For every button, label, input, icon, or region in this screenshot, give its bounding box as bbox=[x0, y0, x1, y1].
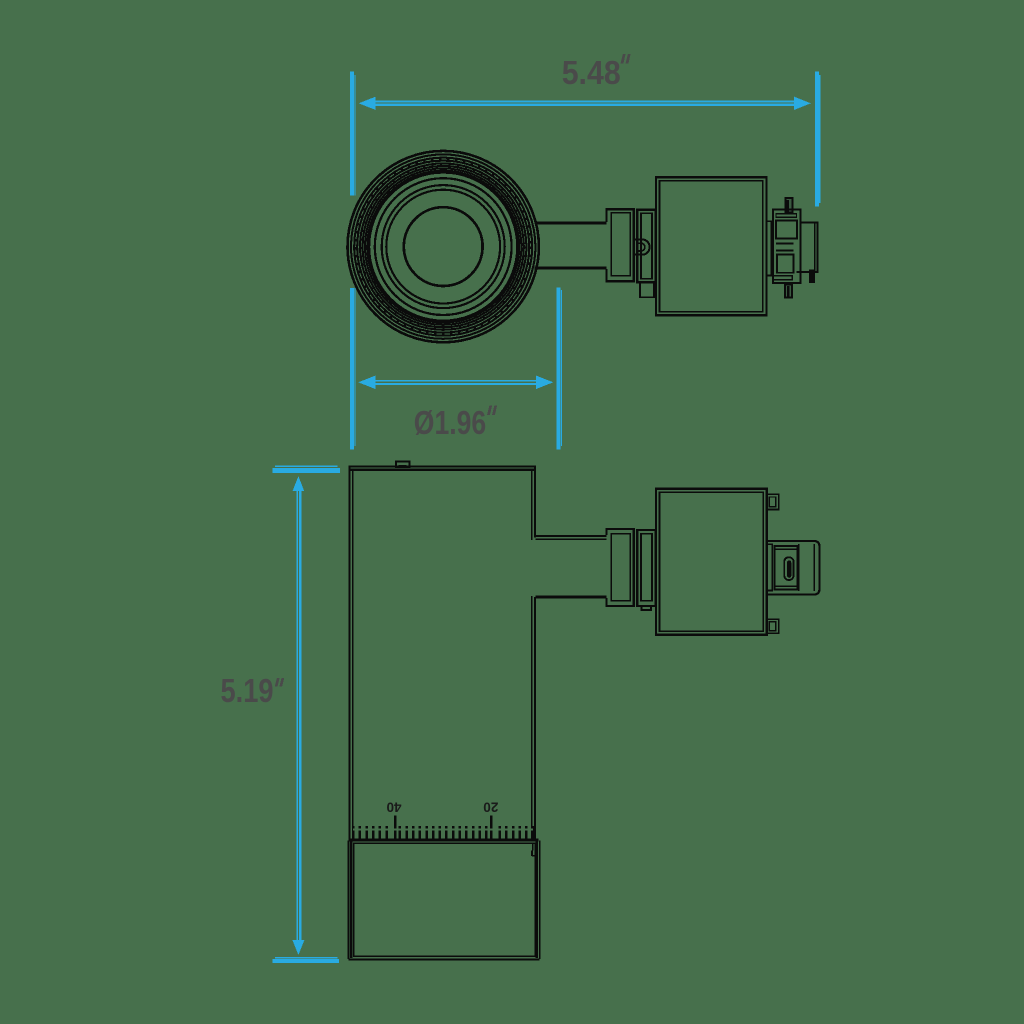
svg-text:5.48: 5.48 bbox=[562, 54, 621, 91]
svg-text:40: 40 bbox=[386, 800, 401, 815]
svg-text:20: 20 bbox=[483, 800, 498, 815]
svg-text:Ø1.96: Ø1.96 bbox=[414, 404, 486, 441]
svg-text:5.19: 5.19 bbox=[221, 672, 274, 709]
